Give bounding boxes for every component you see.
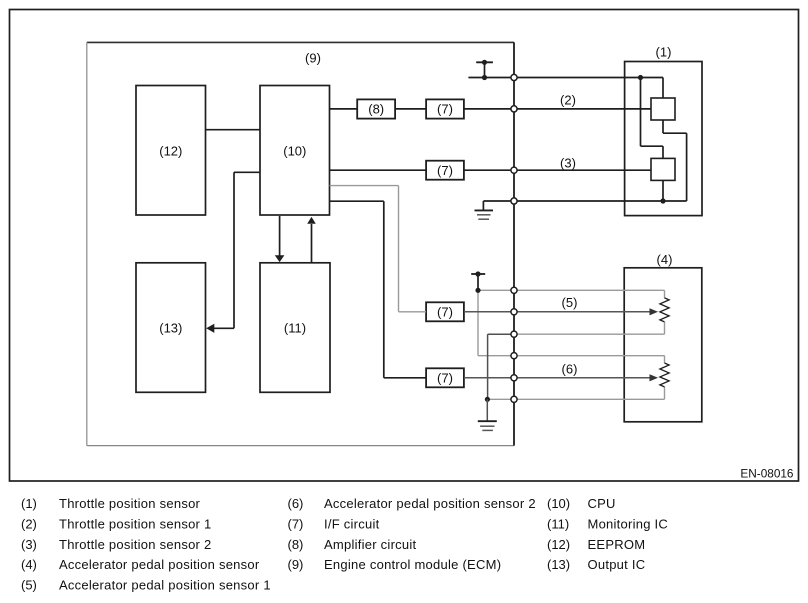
svg-text:(10): (10)	[547, 496, 570, 511]
svg-text:(7): (7)	[437, 305, 453, 320]
svg-text:CPU: CPU	[588, 496, 616, 511]
svg-text:(7): (7)	[437, 102, 453, 117]
svg-text:Accelerator pedal position sen: Accelerator pedal position sensor 1	[59, 578, 271, 593]
svg-text:Accelerator pedal position sen: Accelerator pedal position sensor 2	[324, 496, 536, 511]
svg-text:(9): (9)	[305, 50, 321, 65]
svg-text:(7): (7)	[288, 517, 304, 532]
svg-text:(8): (8)	[368, 102, 384, 117]
svg-text:(13): (13)	[547, 557, 570, 572]
svg-text:(7): (7)	[437, 371, 453, 386]
svg-text:Accelerator pedal position sen: Accelerator pedal position sensor	[59, 557, 260, 572]
svg-text:Engine control module (ECM): Engine control module (ECM)	[324, 557, 501, 572]
svg-text:Throttle position sensor 1: Throttle position sensor 1	[59, 517, 211, 532]
svg-text:(7): (7)	[437, 163, 453, 178]
svg-text:Monitoring IC: Monitoring IC	[588, 517, 669, 532]
svg-text:Output IC: Output IC	[588, 557, 646, 572]
svg-text:(4): (4)	[21, 557, 37, 572]
svg-text:(3): (3)	[21, 537, 37, 552]
svg-text:(11): (11)	[284, 321, 306, 336]
svg-text:(8): (8)	[288, 537, 304, 552]
svg-text:(5): (5)	[562, 295, 578, 310]
svg-text:(10): (10)	[283, 144, 306, 159]
svg-text:EEPROM: EEPROM	[588, 537, 646, 552]
svg-text:I/F circuit: I/F circuit	[324, 517, 380, 532]
svg-text:EN-08016: EN-08016	[740, 467, 794, 481]
svg-text:(2): (2)	[21, 517, 37, 532]
svg-text:(13): (13)	[159, 321, 182, 336]
svg-text:(1): (1)	[21, 496, 37, 511]
svg-text:(3): (3)	[560, 156, 576, 171]
svg-text:(2): (2)	[560, 93, 576, 108]
svg-text:(6): (6)	[562, 362, 578, 377]
svg-text:(5): (5)	[21, 578, 37, 593]
svg-text:(4): (4)	[657, 252, 673, 267]
svg-text:(6): (6)	[288, 496, 304, 511]
svg-text:(12): (12)	[547, 537, 570, 552]
svg-text:(1): (1)	[656, 45, 672, 60]
svg-text:(12): (12)	[159, 144, 182, 159]
svg-text:Throttle position sensor 2: Throttle position sensor 2	[59, 537, 211, 552]
svg-text:(11): (11)	[547, 517, 569, 532]
svg-text:Throttle position sensor: Throttle position sensor	[59, 496, 201, 511]
svg-text:(9): (9)	[288, 557, 304, 572]
svg-text:Amplifier circuit: Amplifier circuit	[324, 537, 417, 552]
